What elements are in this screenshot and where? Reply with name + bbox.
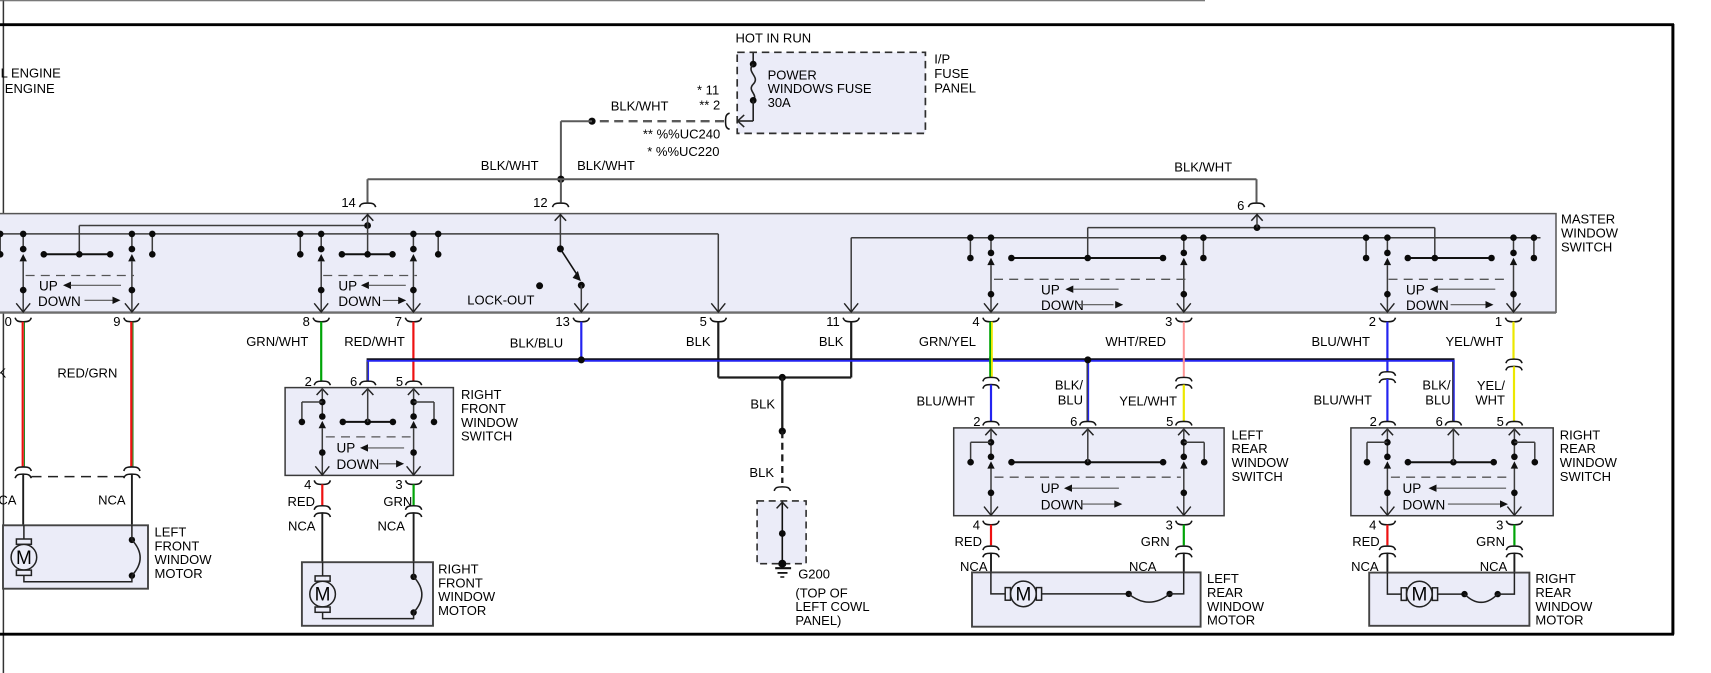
left rear window motor bbox=[972, 571, 1265, 628]
svg-text:YEL/WHT: YEL/WHT bbox=[1119, 394, 1177, 409]
right rear window switch pin 4 bottom fork bbox=[1379, 521, 1395, 525]
lock-out switch S1 bbox=[557, 245, 585, 288]
left rear window motor box bbox=[972, 572, 1201, 626]
wire WHT/RED crossing overlay bbox=[1183, 357, 1185, 364]
wire NCA pin9 to left front motor bbox=[131, 474, 133, 525]
left rear window switch right column bbox=[1183, 428, 1185, 457]
svg-text:M: M bbox=[1411, 585, 1427, 606]
svg-text:BLK/WHT: BLK/WHT bbox=[611, 98, 669, 113]
wire WHT/RED from pin 3 bbox=[1183, 322, 1185, 377]
unit LF stub contact x=152.3 bbox=[151, 234, 153, 254]
node pin14 tie junction bbox=[364, 222, 371, 229]
svg-text:7: 7 bbox=[395, 314, 402, 329]
ground symbol G200 bbox=[775, 567, 791, 569]
svg-text:PANEL: PANEL bbox=[934, 81, 976, 96]
page frame thin top line bbox=[0, 0, 1205, 2]
svg-text:30A: 30A bbox=[768, 95, 791, 110]
svg-text:2: 2 bbox=[1370, 414, 1377, 429]
connector fork master pin 7 bbox=[405, 318, 421, 322]
right front window switch pin 5 entry arrow bbox=[408, 389, 419, 395]
svg-text:UP: UP bbox=[337, 441, 356, 456]
unit LF left column bbox=[22, 234, 24, 249]
wire RED/GRN from pin 0 bbox=[22, 322, 24, 467]
svg-text:4: 4 bbox=[304, 477, 311, 492]
svg-text:BLU/WHT: BLU/WHT bbox=[1314, 393, 1373, 408]
right front window switch pin 3 bottom fork bbox=[406, 480, 422, 484]
svg-text:GRN: GRN bbox=[1141, 534, 1170, 549]
connector fork master pin 13 bbox=[573, 318, 589, 322]
page frame right border bbox=[1671, 24, 1674, 635]
right rear window switch pin 5 top fork bbox=[1506, 421, 1522, 425]
ground G200 box (dashed) bbox=[757, 501, 806, 564]
right front window motor motor symbol M bbox=[310, 576, 336, 612]
wire NCA left to motor bbox=[321, 513, 323, 562]
left front window motor bottom link wire bbox=[24, 575, 132, 581]
unit LF left wiper bbox=[20, 254, 27, 261]
node fuse bottom terminal bbox=[750, 97, 757, 104]
left front window motor box bbox=[3, 525, 148, 588]
svg-text:8: 8 bbox=[303, 314, 310, 329]
svg-text:REAR: REAR bbox=[1560, 441, 1596, 456]
svg-text:4: 4 bbox=[972, 314, 979, 329]
unit RR right column bbox=[1513, 238, 1515, 253]
svg-text:DOWN: DOWN bbox=[1041, 498, 1084, 513]
svg-text:BLK/WHT: BLK/WHT bbox=[481, 158, 539, 173]
unit LF right wiper bbox=[128, 254, 135, 261]
right front window switch bbox=[285, 374, 519, 492]
left rear window switch right wiper bbox=[1180, 461, 1187, 468]
right front window switch left bracket contact bbox=[302, 401, 322, 403]
wire master pin 5 exit bbox=[711, 303, 725, 312]
master switch unit LR (pins 4/3) bbox=[967, 234, 1207, 313]
svg-text:FUSE: FUSE bbox=[934, 66, 969, 81]
svg-text:SWITCH: SWITCH bbox=[461, 429, 512, 444]
unit LR right wiper bbox=[1180, 258, 1187, 265]
svg-text:2: 2 bbox=[305, 374, 312, 389]
fuse element S-curve bbox=[751, 64, 755, 100]
svg-text:GRN/YEL: GRN/YEL bbox=[919, 334, 976, 349]
left rear window switch rocker bar bbox=[1012, 461, 1164, 463]
left rear window switch right bracket contact bbox=[1184, 441, 1204, 443]
node fuse top terminal bbox=[750, 61, 757, 68]
svg-text:6: 6 bbox=[350, 374, 357, 389]
right front window motor regulator arc bbox=[410, 574, 421, 616]
wire BLK/WHT dashed from fuse panel bbox=[592, 120, 724, 122]
node G200 terminal bbox=[778, 560, 786, 568]
connector NCA left pair bbox=[1379, 546, 1395, 550]
left rear window motor wire arc to right pin bbox=[1170, 572, 1184, 594]
right rear window switch right wiper bbox=[1511, 461, 1518, 468]
left front window motor motor symbol M bbox=[11, 539, 37, 575]
connector fork master pin 14 bbox=[360, 203, 376, 207]
connector C5 (YEL/WHT) bbox=[1506, 359, 1522, 363]
svg-text:2: 2 bbox=[973, 414, 980, 429]
connector fork master pin 2 bbox=[1379, 318, 1395, 322]
svg-text:11: 11 bbox=[826, 314, 840, 329]
connector fork G200 bbox=[774, 487, 790, 491]
connector C4 (BLU/WHT) bbox=[1379, 372, 1395, 376]
svg-text:* %%UC220: * %%UC220 bbox=[647, 144, 719, 159]
right front window switch pin 2 top fork bbox=[314, 381, 330, 385]
right rear window switch left column bbox=[1386, 428, 1388, 457]
svg-text:6: 6 bbox=[1070, 414, 1077, 429]
left rear window switch pin 2 top fork bbox=[983, 421, 999, 425]
right rear window switch pin 6 top fork bbox=[1445, 421, 1461, 425]
svg-text:UP: UP bbox=[1403, 481, 1422, 496]
wires left rear switch to motor bbox=[955, 525, 1192, 574]
wire BLK junction tee bbox=[718, 376, 851, 378]
svg-text:G200: G200 bbox=[798, 567, 830, 582]
connector C1 pin9 side bbox=[124, 467, 140, 471]
svg-text:BLU/WHT: BLU/WHT bbox=[1312, 334, 1371, 349]
svg-text:** 2: ** 2 bbox=[699, 98, 720, 113]
wire GRN to motor bbox=[1513, 525, 1515, 546]
unit RF left column bbox=[320, 234, 322, 249]
right rear window motor bbox=[1369, 571, 1593, 628]
svg-text:RIGHT: RIGHT bbox=[461, 387, 502, 402]
right rear window switch box bbox=[1351, 428, 1553, 516]
page frame top border bbox=[0, 23, 1674, 26]
left rear window switch left wiper bbox=[987, 461, 994, 468]
left front window motor wire arc to box top bbox=[131, 525, 133, 540]
svg-text:DOWN: DOWN bbox=[1403, 498, 1446, 513]
wire GRN/YEL from pin 4 bbox=[989, 322, 991, 377]
master switch unit RR (pins 2/1) bbox=[1363, 234, 1537, 313]
wires right rear switch to motor bbox=[1351, 525, 1522, 574]
left rear window motor motor symbol M bbox=[1005, 581, 1041, 607]
right front window switch rocker bar bbox=[343, 421, 393, 423]
svg-text:LEFT: LEFT bbox=[155, 524, 187, 539]
right rear window switch linkage dashed bbox=[1391, 476, 1512, 478]
wire GRN/YEL crossing overlay bbox=[989, 357, 991, 364]
right front window switch right wiper bbox=[410, 421, 417, 428]
svg-text:MASTER: MASTER bbox=[1561, 212, 1615, 227]
right front window motor wire into motor top bbox=[322, 562, 324, 576]
node BLK/BLU junction left rear bbox=[1084, 356, 1091, 363]
wire drop to master pin 6 bbox=[1256, 179, 1258, 202]
wire fuse top stub bbox=[752, 53, 754, 64]
svg-text:WINDOW: WINDOW bbox=[1561, 226, 1619, 241]
unit LF rocker bar bbox=[44, 253, 110, 255]
svg-text:BLK/WHT: BLK/WHT bbox=[577, 158, 635, 173]
wire BLK dashed to G200 bbox=[781, 431, 783, 483]
svg-text:RED: RED bbox=[1352, 534, 1379, 549]
node splice on BLK/WHT bbox=[588, 118, 595, 125]
right front window motor wire arc to box top bbox=[413, 562, 415, 577]
connector NCA right pair bbox=[1506, 546, 1522, 550]
svg-text:RED/WHT: RED/WHT bbox=[344, 334, 405, 349]
right rear window switch rocker bar bbox=[1408, 461, 1494, 463]
svg-text:UP: UP bbox=[1041, 481, 1060, 496]
node BLK splice bbox=[779, 428, 786, 435]
wires right front switch to motor bbox=[288, 484, 422, 562]
right rear window motor motor symbol M bbox=[1401, 581, 1437, 607]
right rear window switch left bracket contact bbox=[1367, 441, 1387, 443]
svg-text:FRONT: FRONT bbox=[461, 401, 506, 416]
svg-text:M: M bbox=[1015, 585, 1031, 606]
connector C2 (GRN/YEL to BLU/WHT) bbox=[983, 377, 999, 381]
svg-text:MOTOR: MOTOR bbox=[438, 603, 486, 618]
svg-text:RIGHT: RIGHT bbox=[1535, 571, 1576, 586]
wire NCA left to motor bbox=[1386, 553, 1388, 572]
svg-text:WINDOW: WINDOW bbox=[1232, 455, 1290, 470]
wire RED/WHT from pin 7 bbox=[412, 322, 414, 381]
svg-text:FRONT: FRONT bbox=[438, 575, 483, 590]
svg-text:5: 5 bbox=[1166, 414, 1173, 429]
svg-text:YEL/: YEL/ bbox=[1477, 378, 1506, 393]
wire master pin 6 column bbox=[1256, 214, 1258, 228]
wire BLK/WHT splice to riser bbox=[561, 120, 592, 122]
left front window motor regulator arc bbox=[129, 537, 140, 579]
left front window motor bbox=[3, 524, 212, 588]
svg-text:NCA: NCA bbox=[0, 492, 17, 507]
right rear window switch pin 5 entry arrow bbox=[1509, 429, 1520, 435]
svg-text:DOWN: DOWN bbox=[337, 457, 380, 472]
unit RR stub contact x=1366.1 bbox=[1365, 238, 1367, 258]
svg-text:5: 5 bbox=[1497, 414, 1504, 429]
svg-text:BLU: BLU bbox=[1425, 393, 1450, 408]
svg-text:WINDOW: WINDOW bbox=[461, 415, 519, 430]
wire GRN to motor bbox=[1183, 525, 1185, 546]
right front window switch pin 6 entry arrow bbox=[362, 389, 373, 395]
svg-text:BLU: BLU bbox=[1058, 393, 1083, 408]
left rear window switch pin 5 top fork bbox=[1176, 421, 1192, 425]
wire YEL/WHT to right rear switch pin 5 bbox=[1513, 366, 1515, 421]
left rear window switch pin 3 bottom fork bbox=[1176, 521, 1192, 525]
svg-text:LOCK-OUT: LOCK-OUT bbox=[467, 293, 534, 308]
connector fork master pin 5 bbox=[710, 318, 726, 322]
svg-text:BLK/WHT: BLK/WHT bbox=[1174, 160, 1232, 175]
right front window switch pin 2 entry arrow bbox=[317, 389, 328, 395]
svg-text:REAR: REAR bbox=[1207, 585, 1243, 600]
svg-text:9: 9 bbox=[113, 314, 120, 329]
svg-text:NCA: NCA bbox=[98, 492, 126, 507]
right front window switch right bracket contact bbox=[414, 401, 434, 403]
svg-text:RED: RED bbox=[288, 494, 315, 509]
wire BLK from pin 5 bbox=[717, 322, 719, 378]
left rear window motor wire left pin to motor bbox=[991, 572, 1005, 594]
connector NCA right pair bbox=[406, 506, 422, 510]
node junction BLK/WHT at bus bbox=[557, 176, 564, 183]
wire BLK tee to splice bbox=[781, 378, 783, 432]
unit RF right wiper bbox=[410, 254, 417, 261]
svg-text:4: 4 bbox=[1369, 518, 1376, 533]
wire NCA left to motor bbox=[990, 553, 992, 572]
right front window switch box bbox=[285, 388, 453, 476]
svg-text:HOT IN RUN: HOT IN RUN bbox=[736, 30, 812, 45]
svg-text:** %%UC240: ** %%UC240 bbox=[643, 127, 720, 142]
svg-text:SWITCH: SWITCH bbox=[1232, 469, 1283, 484]
wire lock-out to pin 13 bbox=[580, 285, 582, 312]
svg-text:3: 3 bbox=[395, 477, 402, 492]
svg-text:GRN: GRN bbox=[1476, 534, 1505, 549]
page frame bottom border bbox=[0, 633, 1674, 636]
svg-text:RED: RED bbox=[955, 534, 982, 549]
wire NCA right to motor bbox=[413, 513, 415, 562]
unit RR left wiper bbox=[1384, 258, 1391, 265]
node G200 splice bbox=[779, 530, 786, 537]
right front window switch pin 4 bottom fork bbox=[314, 480, 330, 484]
connector NCA right pair bbox=[1176, 546, 1192, 550]
svg-text:12: 12 bbox=[533, 195, 547, 210]
right rear window motor wire left pin to motor bbox=[1387, 573, 1401, 595]
right rear window switch right column bbox=[1513, 428, 1515, 457]
svg-text:MOTOR: MOTOR bbox=[1207, 613, 1255, 628]
svg-text:DOWN: DOWN bbox=[1041, 298, 1084, 313]
svg-text:SWITCH: SWITCH bbox=[1561, 240, 1612, 255]
svg-text:BLK: BLK bbox=[686, 334, 711, 349]
left rear window switch pin 2 entry arrow bbox=[985, 429, 996, 435]
connector NCA left pair bbox=[314, 506, 330, 510]
wire RED to motor bbox=[321, 484, 323, 505]
master window switch box bbox=[0, 214, 1556, 313]
left rear window switch pin 6 entry arrow bbox=[1082, 429, 1093, 435]
svg-text:NCA: NCA bbox=[288, 519, 316, 534]
svg-text:UP: UP bbox=[1406, 283, 1425, 298]
svg-text:BLK: BLK bbox=[819, 334, 844, 349]
svg-text:BLK: BLK bbox=[750, 396, 775, 411]
wire master pin 12 column bbox=[559, 214, 561, 249]
svg-text:BLK/: BLK/ bbox=[1422, 378, 1451, 393]
right front window switch left column bbox=[321, 388, 323, 417]
svg-text:GRN/WHT: GRN/WHT bbox=[246, 334, 308, 349]
svg-text:* 11: * 11 bbox=[697, 83, 719, 98]
svg-text:I/P: I/P bbox=[934, 51, 950, 66]
master switch unit LF (pins 0/9) bbox=[0, 231, 156, 312]
wire drop to master pin 14 bbox=[367, 179, 369, 202]
wire BLK/BLU from pin 13 to ground bus bbox=[580, 322, 582, 359]
wire NCA right to motor bbox=[1183, 553, 1185, 572]
svg-text:BLK/BLU: BLK/BLU bbox=[510, 336, 563, 351]
wire YEL/WHT from pin 1 bbox=[1512, 322, 1514, 359]
svg-text:6: 6 bbox=[1237, 198, 1244, 213]
wire GRN to motor bbox=[413, 484, 415, 505]
wire NCA pin0 to left front motor bbox=[22, 474, 24, 539]
svg-text:DOWN: DOWN bbox=[338, 294, 381, 309]
svg-text:RIGHT: RIGHT bbox=[1560, 427, 1601, 442]
right front window switch left wiper bbox=[319, 421, 326, 428]
connector fork master pin 12 bbox=[553, 203, 569, 207]
svg-text:4: 4 bbox=[973, 518, 980, 533]
connector fork master pin 11 bbox=[843, 318, 859, 322]
unit RR right wiper bbox=[1510, 258, 1517, 265]
svg-text:LEFT: LEFT bbox=[1207, 571, 1239, 586]
svg-text:SWITCH: SWITCH bbox=[1560, 469, 1611, 484]
wire BLK/BLU drop to right rear switch pin 6 bbox=[1452, 360, 1454, 421]
connector NCA left pair bbox=[983, 546, 999, 550]
arrow into panel connector bbox=[738, 115, 745, 127]
page frame left border bbox=[2, 0, 4, 673]
svg-text:13: 13 bbox=[555, 314, 569, 329]
unit RF rocker bar bbox=[342, 253, 393, 255]
unit LR linkage dashed bbox=[994, 278, 1187, 280]
svg-text:ENGINE: ENGINE bbox=[5, 81, 55, 96]
svg-text:BLU/WHT: BLU/WHT bbox=[917, 394, 976, 409]
right rear window switch left wiper bbox=[1384, 461, 1391, 468]
svg-text:UP: UP bbox=[338, 279, 357, 294]
left rear window switch center column bbox=[1087, 428, 1089, 462]
left rear window switch pin 6 top fork bbox=[1080, 421, 1096, 425]
svg-text:PANEL): PANEL) bbox=[795, 613, 841, 628]
svg-text:L ENGINE: L ENGINE bbox=[1, 66, 62, 81]
right rear window switch pin 3 bottom fork bbox=[1506, 521, 1522, 525]
svg-text:WINDOW: WINDOW bbox=[1560, 455, 1618, 470]
lock-out open contact bbox=[536, 282, 543, 289]
wire drop to master pin 12 bbox=[560, 179, 562, 202]
svg-text:WHT: WHT bbox=[1475, 393, 1505, 408]
svg-text:NCA: NCA bbox=[377, 519, 405, 534]
right rear window switch pin 2 top fork bbox=[1379, 421, 1395, 425]
right front window switch pin 6 top fork bbox=[360, 381, 376, 385]
left rear window switch pin 4 bottom fork bbox=[983, 521, 999, 525]
right front window switch right column bbox=[413, 388, 415, 417]
svg-text:MOTOR: MOTOR bbox=[1535, 613, 1583, 628]
svg-text:YEL/WHT: YEL/WHT bbox=[1446, 334, 1504, 349]
left rear window motor wire motor to arc bbox=[1042, 593, 1129, 595]
unit LR stub contact x=1203.4 bbox=[1202, 238, 1204, 258]
right rear window switch pin 6 entry arrow bbox=[1448, 429, 1459, 435]
wire RED to motor bbox=[990, 525, 992, 546]
svg-text:UP: UP bbox=[39, 279, 58, 294]
right rear window motor regulator arc bbox=[1461, 591, 1501, 602]
left rear window motor regulator arc bbox=[1126, 591, 1173, 602]
svg-text:FRONT: FRONT bbox=[155, 538, 200, 553]
wire master internal bus right half bbox=[850, 238, 852, 312]
node BLK tee junction bbox=[779, 374, 786, 381]
wire YEL/WHT to left rear switch pin 5 bbox=[1183, 385, 1185, 421]
svg-text:LEFT: LEFT bbox=[1232, 427, 1264, 442]
connector fork master pin 0 bbox=[15, 318, 31, 322]
right rear window switch bbox=[1351, 414, 1618, 532]
svg-text:WINDOW: WINDOW bbox=[438, 589, 496, 604]
unit RF stub contact x=438.2 bbox=[437, 234, 439, 254]
right front window motor bottom link wire bbox=[323, 612, 414, 618]
svg-text:WHT/RED: WHT/RED bbox=[1105, 334, 1166, 349]
svg-text:M: M bbox=[16, 548, 32, 569]
right front window switch linkage dashed bbox=[326, 436, 411, 438]
right front window motor box bbox=[302, 562, 433, 626]
svg-text:1: 1 bbox=[1495, 314, 1502, 329]
svg-text:RED/GRN: RED/GRN bbox=[57, 366, 117, 381]
svg-text:3: 3 bbox=[1496, 518, 1503, 533]
wire BLK from pin 11 bbox=[850, 322, 852, 378]
unit LR left wiper bbox=[987, 258, 994, 265]
svg-text:3: 3 bbox=[1165, 314, 1172, 329]
wire BLK/BLU horizontal bus bbox=[367, 358, 1455, 360]
connector fork master pin 1 bbox=[1505, 318, 1521, 322]
left rear window switch box bbox=[954, 428, 1224, 516]
left rear window switch left bracket contact bbox=[971, 441, 991, 443]
left rear window switch bbox=[954, 414, 1290, 532]
wire RED/GRN from pin 9 bbox=[130, 322, 132, 467]
master switch unit RF (pins 8/7) bbox=[297, 231, 442, 312]
connector fork master pin 4 bbox=[983, 318, 999, 322]
wire G200 internal bbox=[781, 502, 783, 564]
right rear window motor wire arc to right pin bbox=[1498, 573, 1515, 595]
wire GRN/WHT from pin 8 bbox=[320, 322, 322, 381]
right rear window switch pin 2 entry arrow bbox=[1382, 429, 1393, 435]
unit RR left column bbox=[1386, 238, 1388, 253]
wire BLU/WHT to right rear switch pin 2 bbox=[1386, 379, 1388, 421]
svg-text:14: 14 bbox=[341, 195, 355, 210]
right rear window switch right bracket contact bbox=[1514, 441, 1534, 443]
unit LF right column bbox=[131, 234, 133, 249]
svg-text:BLK/: BLK/ bbox=[1055, 378, 1084, 393]
connector fork master pin 6 bbox=[1248, 203, 1264, 207]
svg-text:REAR: REAR bbox=[1535, 585, 1571, 600]
svg-text:6: 6 bbox=[1436, 414, 1443, 429]
connector fork master pin 8 bbox=[313, 318, 329, 322]
